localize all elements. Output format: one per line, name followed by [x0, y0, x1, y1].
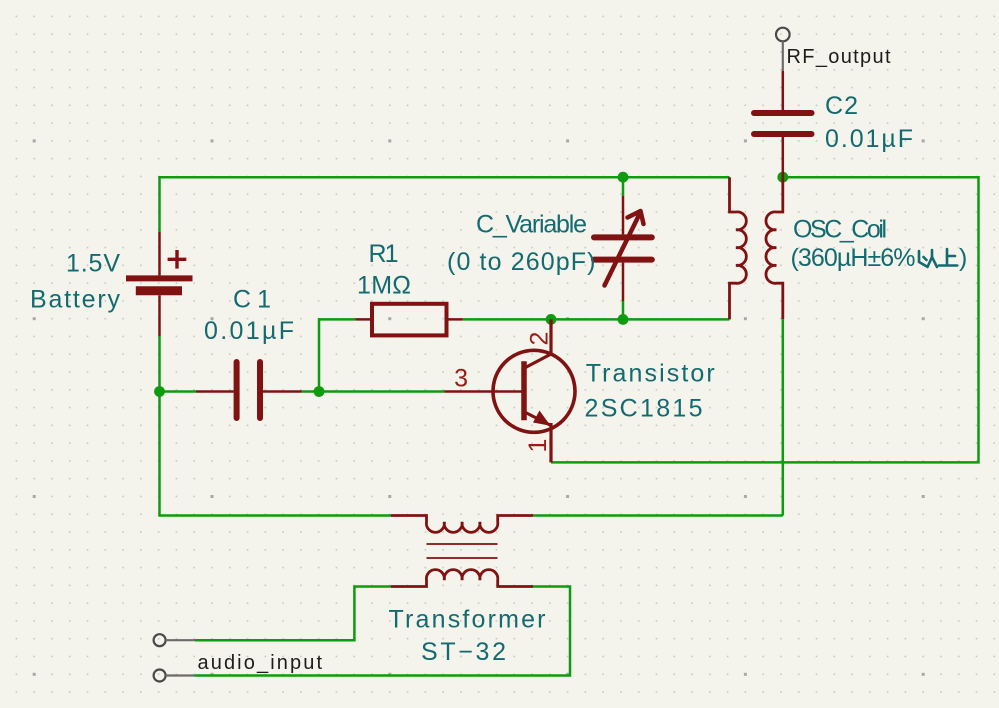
- svg-text:0.01µF: 0.01µF: [204, 317, 294, 345]
- transformer T1 secondary: [391, 570, 533, 587]
- svg-text:1: 1: [524, 439, 552, 453]
- svg-text:3: 3: [454, 365, 468, 393]
- wire R1 right to osc coil left bottom: [463, 318, 730, 321]
- svg-text:2: 2: [526, 332, 554, 346]
- wire transformer secondary right to audio pin 2: [195, 587, 570, 676]
- svg-text:R1: R1: [369, 240, 399, 268]
- wire osc coil right bottom to transformer wire: [782, 319, 785, 515]
- audio input connector pin 2: [154, 670, 195, 682]
- svg-text:RF_output: RF_output: [787, 46, 891, 68]
- wire C_Variable bottom stub: [622, 301, 625, 319]
- wire base junction to transistor base: [319, 390, 445, 393]
- junction battery/C1: [154, 386, 165, 397]
- svg-text:C_Variable: C_Variable: [476, 211, 587, 239]
- wire base junction up to R1 left: [319, 319, 355, 391]
- wire junction to C1 left: [160, 390, 197, 393]
- wire C1 right to base junction: [302, 390, 320, 393]
- svg-text:0.01µF: 0.01µF: [825, 125, 913, 153]
- svg-text:1MΩ: 1MΩ: [357, 272, 411, 300]
- resistor R1: [355, 304, 462, 336]
- capacitor C2: [754, 71, 812, 177]
- wire battery bottom to transformer primary left: [160, 336, 392, 516]
- RF output connector pin: [776, 28, 790, 71]
- junction collector: [546, 314, 557, 325]
- svg-text:Transformer: Transformer: [389, 606, 546, 634]
- svg-text:audio_input: audio_input: [198, 652, 323, 674]
- capacitor C1: [196, 362, 302, 418]
- svg-text:2SC1815: 2SC1815: [585, 394, 703, 422]
- svg-text:): ): [959, 244, 967, 272]
- osc coil right winding L1: [766, 177, 783, 319]
- svg-text:Battery: Battery: [30, 286, 121, 314]
- junction C_Variable top: [618, 172, 629, 183]
- osc coil left winding: [730, 177, 747, 319]
- junction C1/R1/base: [314, 386, 325, 397]
- svg-text:Transistor: Transistor: [586, 359, 715, 387]
- junction C2/coil top: [777, 172, 788, 183]
- wire transformer primary right to coil: [533, 514, 783, 517]
- transformer T1 primary: [391, 516, 533, 533]
- audio input connector pin 1: [154, 634, 195, 646]
- kanji ijou: [919, 249, 957, 267]
- svg-text:OSC_Coil: OSC_Coil: [793, 215, 887, 243]
- junction C_Variable bottom: [618, 314, 629, 325]
- svg-text:1.5V: 1.5V: [66, 250, 120, 278]
- transistor Q1 2SC1815: [445, 319, 576, 462]
- svg-text:(0 to 260pF): (0 to 260pF): [447, 248, 596, 276]
- svg-text:C2: C2: [825, 92, 858, 120]
- transformer T1 core: [427, 544, 498, 558]
- wire transformer secondary left to audio pin 1: [195, 587, 391, 641]
- variable capacitor CV1: [594, 196, 652, 301]
- battery BT1: [126, 232, 193, 336]
- svg-text:(360µH±6%: (360µH±6%: [791, 244, 916, 272]
- svg-text:ST−32: ST−32: [421, 638, 506, 666]
- wire C_Variable top stub: [622, 177, 625, 196]
- wire right net C2/coil to emitter: [551, 177, 979, 462]
- wire top net battery to osc coil: [160, 177, 730, 232]
- transistor emitter arrow: [533, 411, 551, 426]
